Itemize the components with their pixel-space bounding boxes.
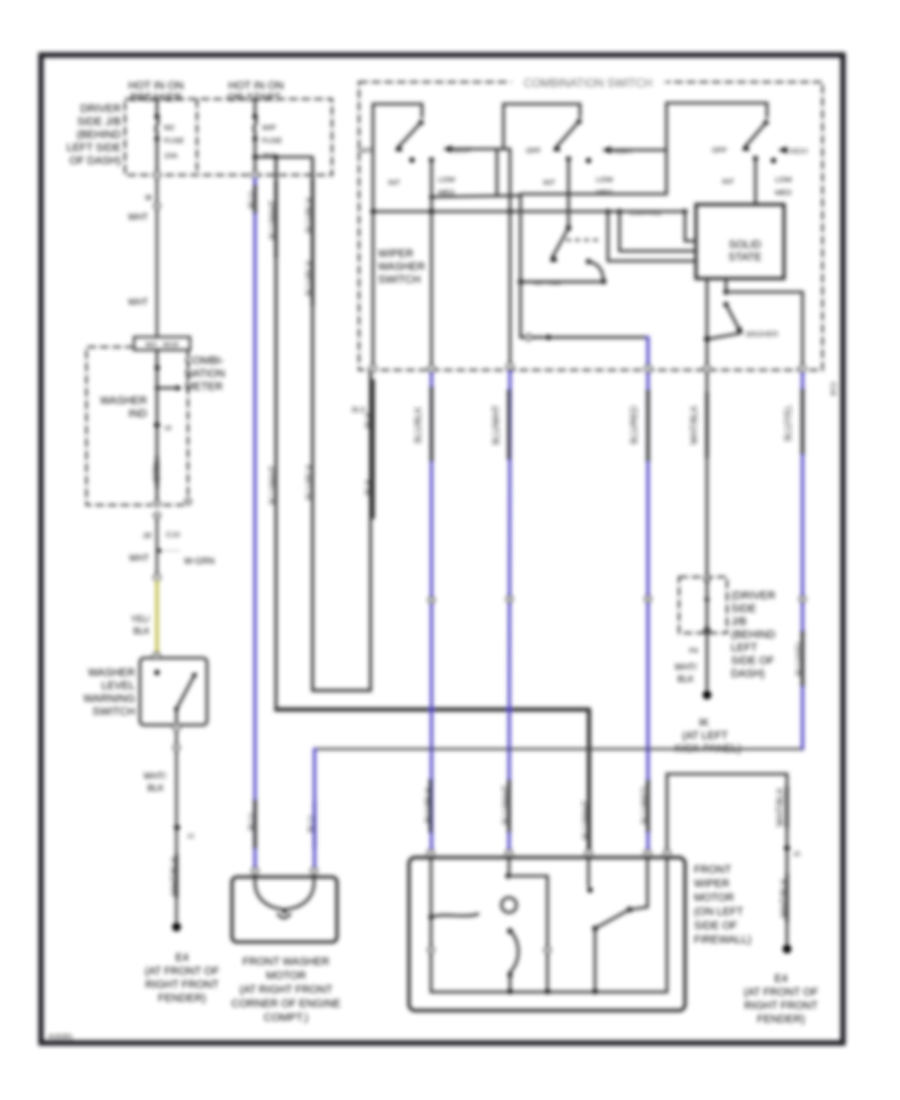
wire WHT below meter [129, 518, 215, 574]
svg-text:WHT/BLK: WHT/BLK [689, 405, 699, 444]
label HOT IN ON (left) [128, 80, 184, 104]
svg-text:YEL/: YEL/ [131, 614, 151, 624]
svg-text:SWITCH: SWITCH [378, 274, 421, 286]
svg-text:C16: C16 [829, 382, 838, 396]
svg-text:SIDE J/B: SIDE J/B [77, 116, 121, 128]
wire tap to wiper feeds [253, 155, 313, 160]
svg-text:E4: E4 [774, 973, 787, 985]
svg-text:FUSE: FUSE [164, 136, 184, 145]
svg-text:15: 15 [793, 851, 801, 858]
ground IK [675, 691, 741, 755]
svg-text:LEFT SIDE: LEFT SIDE [67, 142, 121, 154]
svg-text:SIDE OF: SIDE OF [731, 655, 775, 667]
label driver side J/B (ground connector) [731, 590, 776, 680]
svg-text:WASHER: WASHER [88, 667, 135, 679]
svg-text:BLU/RED: BLU/RED [629, 406, 639, 444]
svg-text:HIGH: HIGH [789, 147, 808, 156]
svg-text:WHT/: WHT/ [144, 771, 167, 781]
svg-text:COMBI-: COMBI- [185, 355, 224, 367]
svg-text:IK: IK [699, 717, 710, 729]
wire pole3 to solid state [754, 159, 757, 205]
svg-text:BLK: BLK [677, 674, 694, 684]
svg-text:WHT: WHT [128, 297, 149, 307]
wire color text overlays [157, 179, 803, 922]
svg-text:F6: F6 [689, 646, 698, 655]
svg-text:STATE: STATE [728, 252, 761, 264]
connector ring fuse2 out [252, 172, 258, 178]
svg-text:WASHER: WASHER [746, 330, 779, 339]
svg-text:12: 12 [187, 833, 195, 840]
svg-text:DRIVER: DRIVER [80, 103, 121, 115]
wire BLU/YEL washer feed [783, 371, 805, 749]
label washer ind [100, 395, 147, 420]
washer indicator wire inside meter [155, 350, 182, 500]
svg-text:COMBINATION SWITCH: COMBINATION SWITCH [524, 78, 653, 90]
solid state input wires [608, 212, 696, 262]
washer switch [708, 279, 803, 371]
svg-text:COMPT.): COMPT.) [264, 1012, 308, 1024]
fuse F1 GAUGE [154, 99, 184, 172]
HIGH contact line pole2 [602, 147, 667, 156]
svg-text:BLU/YEL: BLU/YEL [783, 405, 793, 441]
wire BLU/WHT wiper +2 [491, 369, 512, 850]
svg-text:BLU/BLK: BLU/BLK [413, 407, 423, 443]
svg-text:(DRIVER: (DRIVER [731, 590, 776, 602]
node 2E / C10 [143, 530, 180, 540]
wire loop to wiper motor +B [276, 710, 591, 852]
svg-text:WIPER: WIPER [694, 878, 730, 890]
node 18 [154, 422, 171, 432]
wiper switch pole 2 [504, 104, 615, 197]
svg-text:WHT: WHT [129, 553, 150, 563]
svg-text:(AT LEFT: (AT LEFT [682, 730, 728, 742]
wiper washer switch pole 1 [358, 104, 456, 370]
wiper motor internal bus [507, 989, 597, 994]
svg-text:WIPER: WIPER [378, 248, 414, 260]
svg-text:M2: M2 [164, 123, 174, 132]
svg-text:CONTROL: CONTROL [630, 210, 662, 217]
svg-text:FENDER): FENDER) [757, 1014, 805, 1026]
front wiper motor box [409, 858, 685, 1011]
wire +S vertical [509, 149, 512, 366]
svg-text:IB: IB [145, 193, 152, 202]
connector ring to washer level switch [154, 575, 160, 581]
label front wiper motor [694, 864, 751, 946]
connector box W2/16 [134, 337, 190, 350]
svg-text:RIGHT FRONT: RIGHT FRONT [744, 1000, 818, 1012]
solid state (INT relay) [696, 205, 784, 279]
svg-text:MOTOR: MOTOR [266, 970, 306, 982]
label HOT IN ON (right) [227, 80, 284, 104]
wire loop to wiper switch feed [313, 371, 374, 691]
ground E4 (wiper motor) [744, 945, 819, 1026]
svg-text:FRONT WASHER: FRONT WASHER [243, 956, 330, 968]
svg-text:WARNING: WARNING [83, 693, 135, 705]
svg-text:(BEHIND: (BEHIND [731, 629, 776, 641]
MIST contact line pole1 [443, 146, 510, 197]
svg-text:MOTOR: MOTOR [694, 892, 734, 904]
wire +S to washer rail [521, 196, 649, 341]
svg-text:NATION: NATION [185, 368, 225, 380]
svg-text:BLK: BLK [147, 783, 164, 793]
wiper switch pole 3 [667, 103, 794, 197]
svg-text:BLK: BLK [352, 405, 366, 414]
svg-text:WHT/: WHT/ [675, 662, 698, 672]
svg-text:SWITCH: SWITCH [92, 706, 135, 718]
svg-text:(ON LEFT: (ON LEFT [694, 906, 744, 918]
wire BLU/BLK wiper +1 [413, 371, 434, 850]
svg-text:HOT IN ON: HOT IN ON [228, 80, 284, 92]
svg-text:HOT IN ON: HOT IN ON [128, 80, 184, 92]
washer level warning switch [140, 653, 207, 726]
svg-text:BLU/WHT: BLU/WHT [581, 800, 591, 840]
svg-text:WHT/BLK: WHT/BLK [779, 878, 789, 917]
wire BLU/WHT wiper power feed [268, 159, 278, 710]
svg-text:INT: INT [388, 178, 401, 187]
svg-text:METER: METER [185, 381, 223, 393]
svg-text:BLU/WHT: BLU/WHT [268, 465, 278, 505]
svg-text:LEVEL: LEVEL [101, 680, 135, 692]
fuse block dashed box (driver side J/B) [125, 99, 332, 175]
combination meter dashed box [87, 347, 191, 505]
washer motor stub [307, 749, 317, 868]
wire YEL [131, 581, 157, 652]
label WHT/BLK [675, 662, 698, 684]
label wiper washer switch [378, 248, 425, 286]
svg-text:WASHER: WASHER [378, 261, 425, 273]
svg-text:LOW: LOW [775, 175, 793, 184]
wiper motor armature [428, 856, 550, 991]
svg-text:MED: MED [596, 188, 613, 197]
wire low contact to +2 [429, 160, 520, 370]
label combination meter [185, 355, 225, 393]
wiper park switch [587, 856, 647, 991]
wire BLU washer motor feed [247, 178, 257, 868]
svg-text:MED: MED [775, 188, 792, 197]
svg-text:WASHER: WASHER [100, 395, 147, 407]
svg-text:W-GRN: W-GRN [184, 556, 215, 566]
svg-text:LEFT: LEFT [731, 642, 758, 654]
svg-text:INT TIME: INT TIME [534, 280, 562, 287]
svg-text:10A: 10A [164, 151, 177, 160]
control bus [371, 209, 688, 217]
svg-text:IND: IND [128, 408, 147, 420]
svg-text:OFF: OFF [358, 146, 373, 155]
svg-text:INT: INT [543, 178, 556, 187]
svg-text:BLU/BLK: BLU/BLK [305, 464, 315, 500]
svg-text:BLK: BLK [133, 626, 150, 636]
svg-text:J/B: J/B [731, 616, 747, 628]
HIGH contact pole3 [778, 147, 807, 156]
svg-text:20A: 20A [262, 151, 275, 160]
svg-text:OF DASH): OF DASH) [69, 155, 121, 167]
svg-text:BLU/WHT: BLU/WHT [491, 405, 501, 445]
wire BLU/RED wiper +S [629, 337, 651, 850]
connector rings at switch exit [370, 363, 806, 371]
svg-text:SOLID: SOLID [729, 239, 762, 251]
svg-text:INT: INT [722, 177, 735, 186]
combination switch dashed box [359, 75, 823, 370]
svg-text:(AT FRONT OF: (AT FRONT OF [744, 987, 819, 999]
svg-text:SIDE: SIDE [731, 603, 756, 615]
front washer motor [232, 868, 337, 942]
wire WHT/BLK to ground E4 [144, 725, 195, 925]
svg-text:(AT FRONT OF: (AT FRONT OF [145, 966, 220, 978]
svg-text:OFF: OFF [712, 146, 727, 155]
label washer level warning switch [83, 667, 135, 718]
svg-text:FUSE: FUSE [262, 136, 282, 145]
svg-text:416281: 416281 [48, 1032, 73, 1041]
pole2/pole3 link rail [521, 103, 667, 194]
label driver side J/B [67, 103, 122, 167]
svg-text:WHT: WHT [128, 212, 149, 222]
svg-text:W2 , W16: W2 , W16 [146, 340, 179, 349]
connector ring fuse1 out [154, 172, 160, 178]
svg-text:FENDER): FENDER) [158, 993, 206, 1005]
svg-text:DASH): DASH) [731, 668, 765, 680]
wire washer motor return [315, 748, 803, 750]
wire solid state to ground [704, 279, 710, 578]
svg-text:LOW: LOW [438, 175, 456, 184]
svg-text:OFF: OFF [526, 146, 541, 155]
svg-text:WIP: WIP [262, 123, 276, 132]
svg-text:LOW: LOW [596, 175, 614, 184]
fuse F2 WIP [252, 99, 282, 172]
svg-text:E4: E4 [175, 952, 188, 964]
svg-text:FRONT: FRONT [694, 864, 732, 876]
svg-text:2E: 2E [143, 531, 152, 540]
wiper motor terminals [428, 850, 671, 856]
meter out connector rings [154, 501, 160, 519]
svg-text:18: 18 [164, 425, 172, 432]
wire WHT from gauge fuse to meter [128, 178, 160, 337]
INT relay arm [550, 159, 607, 284]
wire wiper motor ground loop [667, 774, 801, 945]
svg-text:FIREWALL): FIREWALL) [694, 934, 751, 946]
label front washer motor [231, 956, 340, 1024]
wire BLU/BLK switch power feed [305, 159, 315, 691]
svg-text:SIDE OF: SIDE OF [694, 920, 738, 932]
svg-text:(BEHIND: (BEHIND [77, 129, 122, 141]
ground E4 (washer level) [145, 923, 220, 1005]
INT return rail [518, 279, 604, 287]
svg-text:(AT RIGHT FRONT: (AT RIGHT FRONT [240, 984, 333, 996]
svg-text:RIGHT FRONT: RIGHT FRONT [145, 979, 219, 991]
connector on ground wire (driver J/B) [679, 576, 727, 690]
svg-text:C10: C10 [166, 530, 180, 539]
svg-text:BLU: BLU [307, 815, 317, 832]
svg-text:CORNER OF ENGINE: CORNER OF ENGINE [231, 998, 340, 1010]
svg-text:WHT/BLK: WHT/BLK [775, 787, 785, 826]
